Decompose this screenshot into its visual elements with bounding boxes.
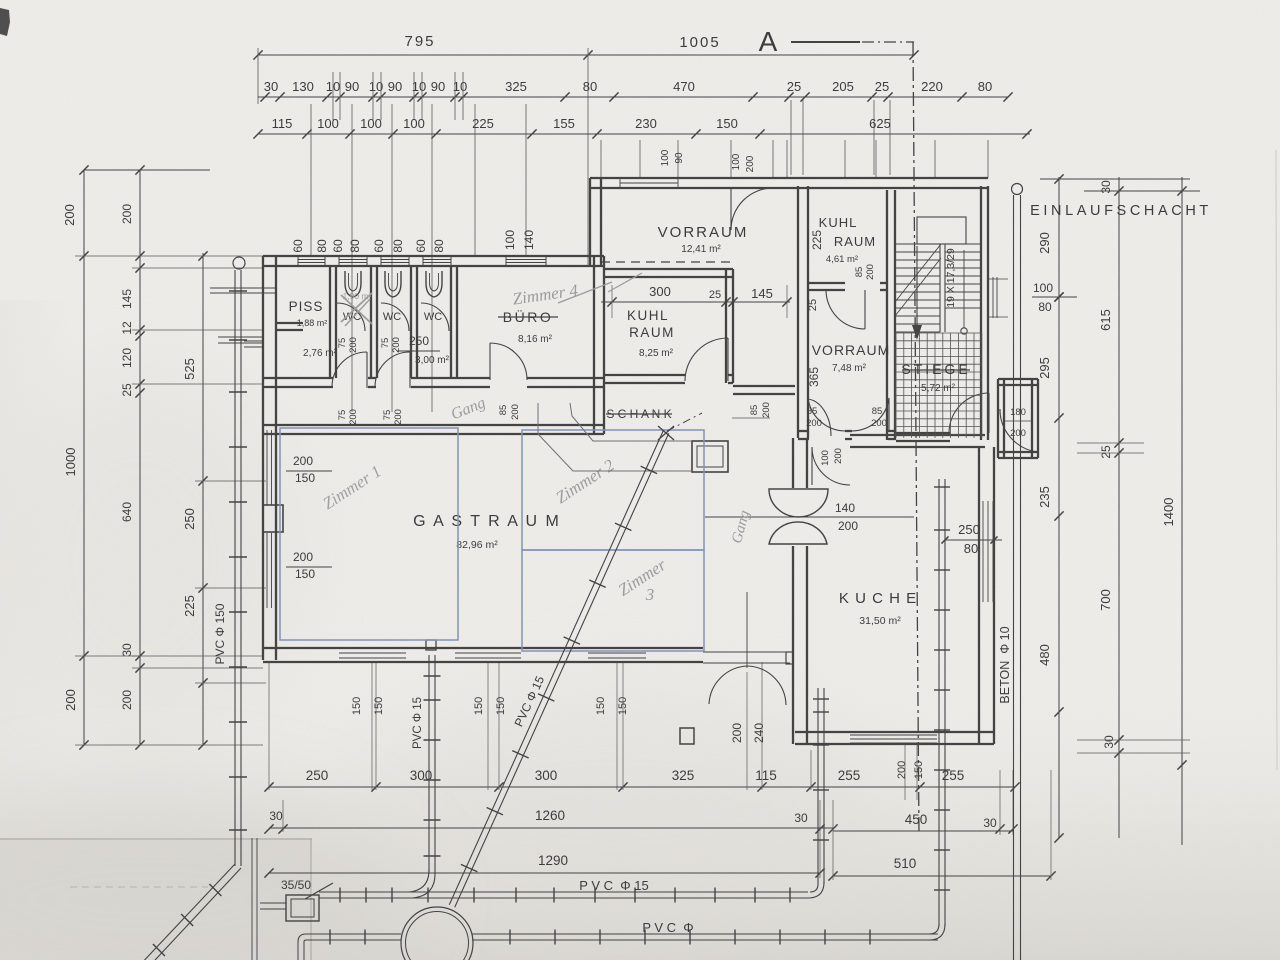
small square mark near wall xyxy=(426,640,436,650)
pipe V0 wall connector xyxy=(244,340,264,342)
pipe V4 elbow xyxy=(409,870,429,892)
wall: left exterior west xyxy=(262,256,264,660)
pipe P2 horizontal lower xyxy=(472,933,938,935)
pipe V0 diagonal rungs xyxy=(209,884,221,896)
door arc kuhl461 xyxy=(826,290,865,329)
shading blotch bottom-center xyxy=(360,680,880,920)
door arc entrance vorraum xyxy=(731,188,773,230)
dim row1 tick mid xyxy=(583,50,592,59)
pilaster west wall xyxy=(263,505,283,532)
pipe D1 dashdot up xyxy=(667,413,702,431)
stairs stringer xyxy=(939,244,941,332)
right chain E ticks+labels xyxy=(1114,186,1123,195)
dim row1 ext mid xyxy=(587,48,589,265)
wall: kueche north xyxy=(850,434,985,436)
strike BUERO xyxy=(498,316,558,318)
pipe einlaufschacht circle xyxy=(1012,184,1023,195)
dim 140/200 kueche xyxy=(705,516,914,518)
pipe P3 left lower xyxy=(306,933,401,935)
door arc corridor-vorraum2 xyxy=(807,399,831,436)
underlying sheet dashed line xyxy=(70,886,208,888)
dim row1 ext left xyxy=(257,48,259,104)
pipe P3 elbow xyxy=(298,934,306,942)
sickerschacht circle xyxy=(401,907,473,960)
right chains top connector xyxy=(1040,178,1190,180)
stairs treads xyxy=(895,243,940,245)
pump box 35/50 xyxy=(286,895,319,921)
shading blotch mid-left xyxy=(0,370,300,750)
pipe P1 rungs xyxy=(339,888,341,903)
exterior box east of stairs xyxy=(997,379,999,458)
pipe V4 vertical gastraum xyxy=(428,655,430,872)
pipe V2 rungs xyxy=(934,486,950,488)
stairs dot marker xyxy=(961,328,967,334)
wall: stairs west xyxy=(886,190,888,440)
dim 145 ext xyxy=(786,285,788,318)
extension lines top rows to wall xyxy=(310,104,312,256)
wall: left block north xyxy=(263,255,604,257)
left margin shading xyxy=(0,300,70,840)
wall: left block east (buero/kuhl) xyxy=(593,256,595,434)
pencil mark kuhl xyxy=(608,273,642,292)
door arc stairs south xyxy=(949,393,989,433)
window stairs east wall xyxy=(987,277,989,318)
pipe P2 rungs xyxy=(509,930,511,945)
door arc vorraum2 south-west xyxy=(808,398,846,431)
pipe P1 horizontal xyxy=(319,891,808,893)
pipe V0 top cross ticks xyxy=(210,287,277,289)
section marker dashdot xyxy=(862,41,914,43)
wall: kuhlraum825 north xyxy=(604,268,733,270)
wall: gastraum south xyxy=(263,647,703,649)
pipe D1 top cross xyxy=(658,426,674,440)
blue rect Zimmer2 xyxy=(522,430,704,550)
wall: kueche west xyxy=(792,438,794,488)
door arc anteroom west xyxy=(332,352,367,387)
wall: upper block north xyxy=(590,177,988,179)
dim row1 line 795/1005 xyxy=(258,54,914,56)
right connector y453 xyxy=(1077,452,1144,454)
schank counter rect xyxy=(692,441,728,472)
left chain C line xyxy=(202,253,204,745)
top-left corner dark mark xyxy=(0,8,10,36)
wall: kueche east xyxy=(978,447,980,744)
blue rect Zimmer3 xyxy=(522,550,704,651)
wall: kuhlraum825 east xyxy=(725,269,727,383)
window kueche east wall xyxy=(982,501,984,602)
right chain F line xyxy=(1181,177,1183,845)
pipe V0 elbow diagonal xyxy=(122,864,235,960)
box diagonal tick xyxy=(305,883,333,899)
wall: corridor north segments xyxy=(263,377,333,379)
door arc exterior box xyxy=(1000,409,1038,452)
small square post south xyxy=(680,728,694,744)
door threshold gastraum south east xyxy=(703,651,790,653)
pipe into box west xyxy=(260,902,286,904)
right connector y443 xyxy=(1077,442,1144,444)
wall: vorraum2/kuhl west xyxy=(797,186,799,438)
bottom dim row3 1290 / 510 xyxy=(269,872,820,874)
pipe V0 rungs xyxy=(229,290,247,292)
wall: stairs east xyxy=(980,186,982,440)
wall: vorraum2 south xyxy=(798,430,809,432)
wall: stairs south xyxy=(896,432,950,434)
door arc buero xyxy=(490,343,527,380)
left chains top connector xyxy=(84,169,210,171)
dim row3 chain 115-100-...-625 xyxy=(258,133,1030,135)
right chain F ticks+labels xyxy=(1177,186,1186,195)
wc bowls xyxy=(345,271,361,297)
pipe V0 vertical west xyxy=(234,270,236,866)
dim row2 extension line pairs xyxy=(332,72,334,120)
dim row2 chain 30-130-10-90...-80 xyxy=(258,96,1008,98)
pencil scribble X over wc1 xyxy=(341,293,372,322)
section line A vertical dashdot xyxy=(913,42,919,835)
wall: corridor north segment east xyxy=(733,385,795,387)
pipe V4 rungs xyxy=(424,675,441,677)
underlying sheet edge vertical xyxy=(310,839,312,960)
left chain C ticks+labels xyxy=(198,251,207,260)
scanner shading bottom xyxy=(0,690,1280,960)
schank counter outline lower xyxy=(538,403,692,471)
pipe D1 rungs xyxy=(641,466,657,473)
right connector y740 xyxy=(1077,739,1190,741)
underlying sheet edge horizontal xyxy=(0,838,312,840)
wall: kueche south xyxy=(795,731,994,733)
door arc kuhlraum825 xyxy=(685,338,728,381)
wall: kuhlraum825 south xyxy=(604,374,685,376)
pipe V3 beton vertical xyxy=(1013,195,1015,960)
windows in north wall xyxy=(298,259,325,261)
dim 250/80 kueche east xyxy=(945,539,1002,541)
left chain A ticks+labels xyxy=(79,165,88,174)
scanner shading bottom-left sheet xyxy=(0,838,312,960)
stairs top landing rect xyxy=(917,217,966,244)
wall: upper block west xyxy=(589,178,591,266)
bottom extension lines xyxy=(268,662,270,790)
pipe thin vertical left xyxy=(251,838,253,960)
door center line xyxy=(746,592,748,668)
windows in west wall xyxy=(266,430,268,505)
right paper edge line xyxy=(1276,150,1277,770)
pencil stroke near Zimmer4 xyxy=(558,282,612,303)
door arc anteroom east xyxy=(375,352,410,387)
dim 300/25/145 xyxy=(601,301,790,303)
door arcs exterior south double xyxy=(709,666,748,704)
strike SCHANK xyxy=(606,413,672,415)
window upper block north xyxy=(620,182,678,184)
left extension lines xyxy=(75,255,263,257)
wc cabin door arcs xyxy=(337,303,365,331)
window kueche south wall xyxy=(850,734,937,736)
left chain B ticks+labels xyxy=(135,165,144,174)
dashed line vorraum south xyxy=(601,261,735,263)
stairs hatch grid xyxy=(895,333,897,438)
wall: kuhl461 south xyxy=(808,282,845,284)
pipe D1 diagonal xyxy=(449,431,663,905)
extension lines top rows to upper wall xyxy=(600,140,602,178)
pipe P1 elbow east xyxy=(810,884,818,892)
door arc vorraum2 south-east xyxy=(851,398,889,431)
right chain E line xyxy=(1118,177,1120,838)
schank counter outline upper xyxy=(570,403,692,441)
pipe vent circle top-left xyxy=(233,257,245,269)
stairs diagonal cut xyxy=(895,244,941,302)
double swing door kueche xyxy=(769,489,828,517)
strike STIEGE xyxy=(902,369,970,371)
wall: gastraum north / corridor south xyxy=(263,424,604,426)
pipe V5 rungs xyxy=(813,698,829,700)
stairs down arrow xyxy=(916,246,918,327)
pipe V5 vertical kueche-south xyxy=(817,688,819,884)
wall: kueche door step xyxy=(786,652,793,664)
left chain A line xyxy=(83,170,85,745)
dim row1 tick left xyxy=(253,50,262,59)
windows in south wall xyxy=(339,647,406,649)
section marker line xyxy=(791,41,860,43)
right chains connector 30 xyxy=(1084,190,1200,192)
pipe V2 elbow xyxy=(929,924,939,934)
left chain B line xyxy=(139,170,141,745)
bottom dim row1 250-300-300-325-115-255-255 xyxy=(269,786,1015,788)
wc cabin divider walls xyxy=(329,266,331,378)
blue rect Zimmer1 xyxy=(280,428,458,640)
pipe V2 vertical kueche xyxy=(938,479,940,926)
dim 100/80 right xyxy=(1032,296,1077,298)
right connector y753 xyxy=(1077,752,1190,754)
dim row1 tick right xyxy=(909,50,918,59)
shading blotch bottom-left xyxy=(0,790,410,960)
door arc kueche north xyxy=(812,447,850,485)
right chain D line xyxy=(1058,177,1060,838)
bottom dim row2 30-1260-30-450-30 xyxy=(269,827,833,829)
piss room south wall xyxy=(276,322,303,324)
right chain D ticks+labels xyxy=(1054,174,1063,183)
